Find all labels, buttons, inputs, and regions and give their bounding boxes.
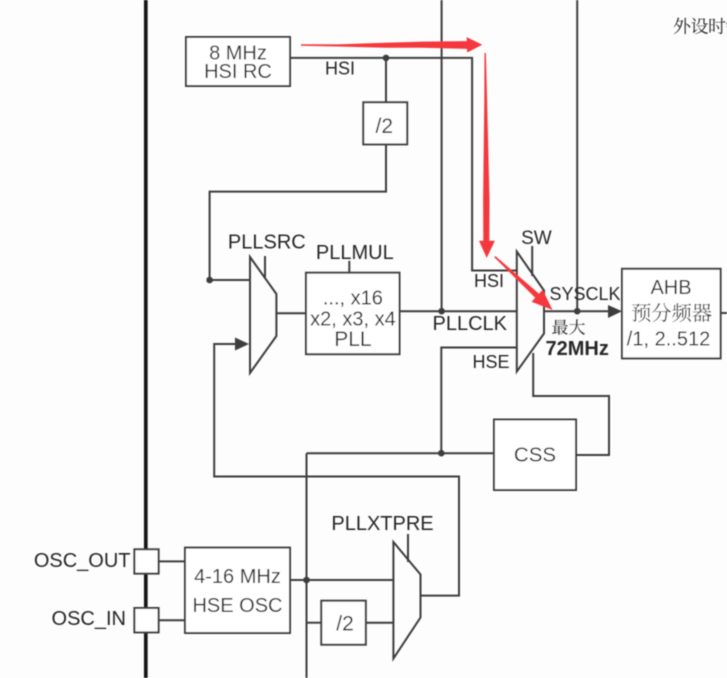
wire HSE to CSS (307, 452, 495, 454)
box CSS (494, 420, 576, 491)
junction PLLCLK (438, 308, 445, 315)
svg-text:4-16 MHz: 4-16 MHz (194, 566, 281, 588)
wire HSI to divider /2 (385, 58, 387, 102)
svg-text:PLLMUL: PLLMUL (316, 242, 394, 264)
mux SW (517, 252, 544, 372)
mux PLLSRC (250, 257, 276, 373)
svg-text:HSE OSC: HSE OSC (192, 595, 282, 617)
oscillator box 4-16 MHz HSE OSC (185, 548, 290, 633)
pad OSC_IN (134, 608, 158, 632)
svg-text:AHB: AHB (650, 277, 691, 299)
wire SYSCLK bus to top peripherals (576, 0, 578, 311)
wire CSS to SW mux HSE input (533, 353, 609, 455)
wire HSE output to PLLXTPRE (290, 579, 393, 581)
label 最大 (max) (552, 320, 568, 335)
svg-text:PLLCLK: PLLCLK (433, 313, 508, 335)
mux PLLXTPRE (393, 542, 420, 659)
red arrow right (HSI annotation) (301, 37, 482, 52)
svg-text:SW: SW (521, 228, 552, 249)
svg-text:OSC_IN: OSC_IN (52, 608, 126, 630)
svg-text:CSS: CSS (514, 444, 556, 467)
svg-text:OSC_OUT: OSC_OUT (34, 550, 131, 572)
label 外设时钟 (peripheral clock, cropped) (674, 18, 691, 34)
box AHB prescaler (622, 269, 721, 359)
oscillator box 8 MHz HSI RC (186, 37, 290, 86)
divider box /2 (HSE) (321, 601, 366, 645)
svg-text:/2: /2 (336, 613, 354, 636)
svg-text:HSI: HSI (474, 271, 504, 291)
junction at PLLSRC HSI input (206, 277, 213, 284)
wire OSC_IN to HSE OSC (159, 619, 185, 621)
svg-text:HSI: HSI (325, 59, 355, 79)
chip boundary line (144, 0, 148, 678)
svg-text:PLLXTPRE: PLLXTPRE (331, 513, 433, 535)
wire PLLCLK bus to top peripherals (441, 0, 443, 311)
wire OSC_OUT to HSE OSC (159, 560, 185, 562)
svg-text:HSE: HSE (472, 352, 509, 372)
wire HSE trunk vertical (306, 453, 308, 678)
svg-text:PLLSRC: PLLSRC (228, 232, 306, 254)
svg-text:PLL: PLL (334, 328, 371, 351)
junction HSE output (303, 577, 310, 584)
wire tap to /2 (HSE) (307, 622, 322, 624)
junction HSE-CSS tap (438, 450, 445, 457)
PLLSRC select tick (264, 256, 266, 278)
junction SYSCLK (574, 308, 581, 315)
wire HSE from PLLXTPRE to PLLSRC (214, 344, 459, 596)
PLLXTPRE select tick (407, 534, 409, 562)
svg-text:/1, 2..512: /1, 2..512 (627, 329, 710, 351)
svg-text:72MHz: 72MHz (546, 338, 609, 360)
svg-text:HSI RC: HSI RC (204, 61, 272, 83)
junction HSI / divider tap (383, 55, 390, 62)
red arrow down (HSI annotation) (479, 53, 495, 258)
wire PLLSRC to PLL (276, 312, 306, 314)
pad OSC_OUT (134, 549, 158, 573)
svg-text:..., x16: ..., x16 (323, 288, 383, 310)
wire PLLCLK (400, 310, 517, 312)
wire /2 to PLLSRC mux (210, 144, 386, 280)
wire /2 to PLLXTPRE (366, 622, 394, 624)
svg-text:SYSCLK: SYSCLK (550, 284, 621, 304)
PLLMUL tick (348, 261, 350, 273)
box PLL multiplier (306, 273, 400, 355)
red arrow diagonal to SYSCLK (annotation) (494, 256, 552, 310)
divider box /2 (HSI) (363, 102, 407, 144)
wire SYSCLK (544, 310, 609, 312)
arrowhead SYSCLK into AHB (608, 305, 622, 318)
svg-text:/2: /2 (376, 115, 394, 138)
wire SYSCLK stub to right edge (721, 312, 727, 314)
wire HSE to SW mux (441, 348, 517, 454)
SW select tick (531, 246, 533, 276)
wire HSI from RC box to SW mux (290, 58, 517, 271)
arrowhead into PLLSRC (235, 338, 249, 351)
